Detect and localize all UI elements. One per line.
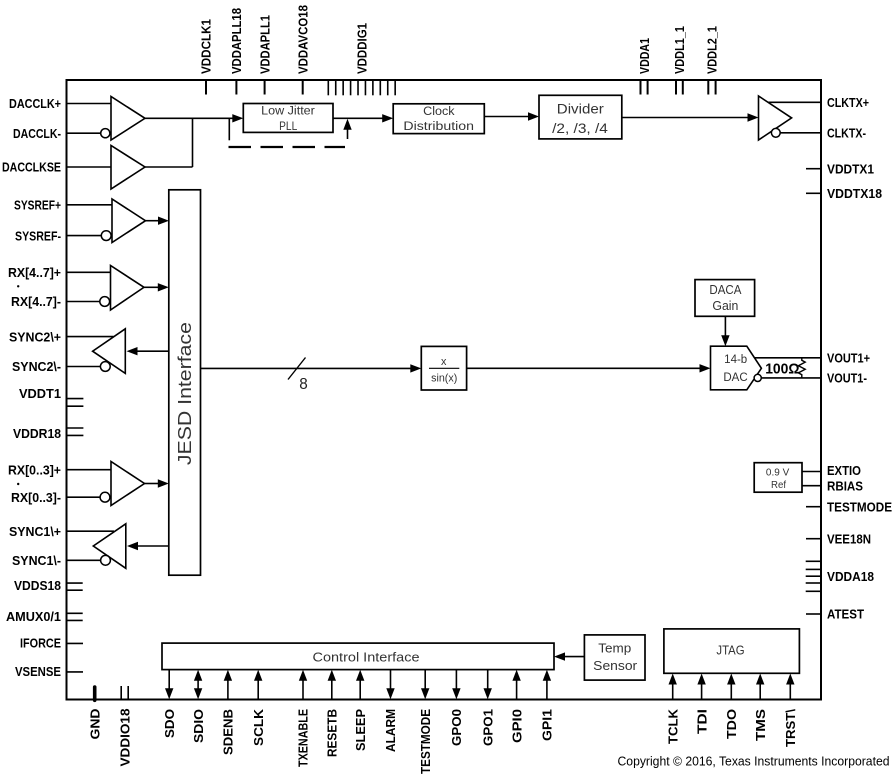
wire CLKTX+ to pin <box>768 101 821 103</box>
svg-text:Gain: Gain <box>712 298 738 313</box>
wire RX[0..3] buffer to JESD <box>145 479 169 487</box>
output buffer SYNC2 (U5) <box>93 329 126 374</box>
input buffer SYSREF (U3) <box>101 199 145 243</box>
input buffer RX[0..3] (U6) <box>100 462 144 506</box>
bus width label 8 <box>299 376 308 393</box>
output buffer CLKTX (U8) <box>759 96 792 140</box>
pin VDDTX18 <box>806 186 882 201</box>
pin RX[4..7]- <box>11 294 100 309</box>
pin RX[0..3]+ <box>8 462 111 477</box>
svg-text:CLKTX-: CLKTX- <box>827 126 866 141</box>
wire RBIAS <box>802 485 821 487</box>
pin TDI <box>694 674 709 735</box>
output buffer SYNC1 (U7) <box>93 524 126 569</box>
svg-text:VSENSE: VSENSE <box>15 664 61 679</box>
input buffer DACCLK (U1) <box>101 97 145 141</box>
block Clock Distribution <box>393 104 484 134</box>
pin VEE18N <box>806 531 871 546</box>
wire CLKTX- to pin <box>780 132 821 134</box>
pin VDDAPLL18 <box>229 8 244 95</box>
svg-text:TCLK: TCLK <box>665 709 680 744</box>
svg-text:SYSREF+: SYSREF+ <box>14 198 61 213</box>
svg-text:SYNC1\-: SYNC1\- <box>12 553 61 568</box>
pin VOUT1- <box>827 371 867 386</box>
wire JESD to x/sin(x) (8-bit bus) <box>201 364 422 372</box>
svg-text:x: x <box>441 356 447 368</box>
pin EXTIO <box>827 463 861 478</box>
svg-text:Control Interface: Control Interface <box>313 649 420 664</box>
svg-text:VDDAVCO18: VDDAVCO18 <box>295 5 310 74</box>
svg-text:RX[0..3]+: RX[0..3]+ <box>8 462 61 477</box>
svg-text:VDDAPLL18: VDDAPLL18 <box>229 8 244 74</box>
wire Divider to CLKTX output buffer <box>622 113 759 121</box>
svg-text:JTAG: JTAG <box>716 643 744 657</box>
svg-text:GPO0: GPO0 <box>449 709 464 746</box>
svg-text:RX[0..3]-: RX[0..3]- <box>11 490 61 505</box>
pin VDDAPLL1 <box>257 15 272 95</box>
svg-text:IFORCE: IFORCE <box>20 635 61 650</box>
ellipsis dot between RX[0..3] pins <box>17 483 19 485</box>
svg-text:SYNC1\+: SYNC1\+ <box>9 524 61 539</box>
svg-text:VDDTX1: VDDTX1 <box>827 161 874 176</box>
svg-text:TESTMODE: TESTMODE <box>827 499 892 514</box>
pin SYSREF+ <box>14 198 112 213</box>
svg-text:AMUX0/1: AMUX0/1 <box>6 609 61 624</box>
pin SYNC2\- <box>12 359 100 374</box>
svg-text:14-b: 14-b <box>724 354 747 366</box>
wire junction DACCLKSE join vertical <box>192 118 194 167</box>
svg-text:TESTMODE: TESTMODE <box>418 709 433 774</box>
block Divider /2 /3 /4 <box>539 95 622 139</box>
block Low Jitter PLL <box>243 104 333 134</box>
pin GPO0 <box>449 670 464 746</box>
pin TDO <box>724 674 739 740</box>
pin VDDA18 (5 ticks) <box>806 561 874 591</box>
svg-text:/2, /3, /4: /2, /3, /4 <box>552 121 608 136</box>
svg-text:VDDTX18: VDDTX18 <box>827 186 882 201</box>
pin VDDA1 <box>637 38 652 95</box>
svg-text:CLKTX+: CLKTX+ <box>827 95 869 110</box>
wire JESD to SYNC2 buffer <box>127 347 169 355</box>
svg-text:SYSREF-: SYSREF- <box>15 228 61 243</box>
pin RX[4..7]+ <box>8 265 111 280</box>
pin VDDL1_1 <box>672 26 687 95</box>
svg-text:SYNC2\-: SYNC2\- <box>12 359 61 374</box>
block JESD Interface <box>169 190 201 575</box>
input buffer RX[4..7] (U4) <box>100 266 144 311</box>
svg-text:GPI1: GPI1 <box>540 709 555 741</box>
svg-text:8: 8 <box>299 376 308 393</box>
svg-text:VDDS18: VDDS18 <box>14 578 61 593</box>
svg-text:Temp: Temp <box>598 641 631 656</box>
wire EXTIO <box>802 471 821 473</box>
pin group VDDDIG1 (10 supply pins) <box>328 23 395 95</box>
svg-text:SDO: SDO <box>162 709 177 738</box>
pin ALARM <box>383 670 398 752</box>
svg-text:VDDL1_1: VDDL1_1 <box>672 26 687 74</box>
svg-text:VDDCLK1: VDDCLK1 <box>199 19 214 74</box>
wire DACCLKSE buffer output <box>145 166 193 168</box>
pin VSENSE <box>15 664 83 679</box>
pin VDDT1 (2 ticks) <box>19 386 83 406</box>
svg-text:PLL: PLL <box>279 119 297 133</box>
svg-text:Sensor: Sensor <box>593 658 638 673</box>
pin VDDR18 (2 ticks) <box>13 426 83 441</box>
loop filter dashed line <box>229 146 346 148</box>
pin GPI1 <box>540 670 555 741</box>
svg-text:ALARM: ALARM <box>383 709 398 752</box>
wire loop filter up arrow to VCO output <box>343 119 351 139</box>
chip outline <box>67 80 822 700</box>
svg-text:0.9 V: 0.9 V <box>766 468 790 479</box>
wire VOUT1- to pin <box>761 377 821 379</box>
pin ATEST <box>806 607 864 622</box>
pin TESTMODE <box>418 670 433 774</box>
svg-text:RESETB: RESETB <box>325 709 340 757</box>
ellipsis dot between RX[4..7] pins <box>17 285 19 287</box>
pin IFORCE <box>20 635 83 650</box>
svg-text:DAC: DAC <box>723 372 747 384</box>
pin VOUT1+ <box>827 351 870 366</box>
pin DACCLKSE <box>2 160 111 175</box>
pin CLKTX- <box>827 126 866 141</box>
wire RX[4..7] buffer to JESD <box>144 283 169 291</box>
svg-text:sin(x): sin(x) <box>431 372 457 384</box>
svg-text:VDDA18: VDDA18 <box>827 569 874 584</box>
wire DACCLK buffer output to PLL <box>145 114 243 122</box>
wire JESD to SYNC1 buffer <box>127 542 169 550</box>
pin RBIAS <box>827 478 863 493</box>
svg-text:100Ω: 100Ω <box>765 361 799 378</box>
pin SDO <box>162 670 177 738</box>
pin VDDTX1 <box>806 161 874 176</box>
block Temp Sensor <box>584 635 645 680</box>
svg-text:SDIO: SDIO <box>191 709 206 743</box>
svg-text:VOUT1+: VOUT1+ <box>827 351 870 366</box>
svg-text:RX[4..7]+: RX[4..7]+ <box>8 265 61 280</box>
pin RX[0..3]- <box>11 490 100 505</box>
svg-text:JESD Interface: JESD Interface <box>175 322 195 465</box>
block Control Interface <box>162 643 554 670</box>
pin VDDCLK1 <box>199 19 214 95</box>
pin VDDIO18 (2 ticks) <box>117 686 132 767</box>
svg-text:VDDL2_1: VDDL2_1 <box>705 26 720 74</box>
svg-text:GND: GND <box>87 709 102 740</box>
svg-text:SLEEP: SLEEP <box>353 709 368 751</box>
svg-text:DACCLKSE: DACCLKSE <box>2 160 61 175</box>
svg-text:GPO1: GPO1 <box>480 709 495 746</box>
svg-text:VDDR18: VDDR18 <box>13 426 61 441</box>
wire loop filter stub vertical <box>228 118 230 140</box>
svg-text:EXTIO: EXTIO <box>827 463 861 478</box>
resistor 100 ohm termination <box>798 358 805 378</box>
pin CLKTX+ <box>827 95 869 110</box>
svg-text:DACCLK-: DACCLK- <box>13 126 61 141</box>
pin GPI0 <box>509 670 524 743</box>
wire SYSREF buffer to JESD <box>146 217 170 225</box>
pin VDDAVCO18 <box>295 5 310 95</box>
wire PLL to Clock Distribution <box>333 114 393 122</box>
svg-text:Ref: Ref <box>771 480 786 491</box>
block JTAG <box>664 629 800 673</box>
svg-text:VDDDIG1: VDDDIG1 <box>354 23 369 74</box>
svg-text:TDI: TDI <box>694 709 709 734</box>
pin SLEEP <box>353 670 368 751</box>
svg-text:DACCLK+: DACCLK+ <box>9 96 61 111</box>
pin DACCLK+ <box>9 96 111 111</box>
svg-text:TRST\: TRST\ <box>783 709 798 747</box>
svg-text:GPI0: GPI0 <box>509 709 524 743</box>
pin TESTMODE (right) <box>806 499 892 514</box>
wire VOUT1+ to pin <box>755 357 822 359</box>
copyright notice <box>618 754 890 769</box>
pin TXENABLE <box>296 670 311 767</box>
pin SYNC1\- <box>12 553 101 568</box>
pin SCLK <box>251 670 266 746</box>
svg-text:SYNC2\+: SYNC2\+ <box>9 329 61 344</box>
svg-text:VOUT1-: VOUT1- <box>827 371 867 386</box>
pin RESETB <box>325 670 340 757</box>
svg-text:SDENB: SDENB <box>221 709 236 755</box>
DAC 14-b core (U9) <box>711 346 762 390</box>
pin AMUX0/1 (2 ticks) <box>6 609 83 624</box>
bus width slash <box>288 358 306 380</box>
svg-text:Distribution: Distribution <box>403 119 474 133</box>
wire DACA Gain to DAC <box>721 316 729 346</box>
pin DACCLK- <box>13 126 101 141</box>
ground pin GND <box>87 687 102 740</box>
pin GPO1 <box>480 670 495 746</box>
svg-text:VDDAPLL1: VDDAPLL1 <box>257 15 272 74</box>
svg-text:Divider: Divider <box>557 102 604 117</box>
svg-text:SCLK: SCLK <box>251 709 266 746</box>
pin SYNC2\+ <box>9 329 114 344</box>
block 0.9 V Ref <box>754 463 802 493</box>
svg-text:VDDIO18: VDDIO18 <box>117 709 132 767</box>
pin SDIO <box>191 670 206 743</box>
svg-text:Low Jitter: Low Jitter <box>261 104 315 118</box>
svg-text:VDDA1: VDDA1 <box>637 38 652 74</box>
pin TCLK <box>665 674 680 745</box>
svg-text:DACA: DACA <box>709 282 741 297</box>
input buffer DACCLKSE (U2) <box>111 146 145 190</box>
svg-text:TDO: TDO <box>724 709 739 739</box>
block DACA Gain <box>695 280 755 317</box>
svg-text:TXENABLE: TXENABLE <box>296 709 311 767</box>
block x/sin(x) <box>421 346 466 390</box>
svg-text:VEE18N: VEE18N <box>827 531 871 546</box>
pin SDENB <box>221 670 236 755</box>
pin VDDL2_1 <box>705 26 720 95</box>
pin TRST\ <box>783 674 798 748</box>
pin VDDS18 (2 ticks) <box>14 578 83 593</box>
wire x/sin(x) to 14-b DAC <box>467 364 711 372</box>
wire Clock Distribution to Divider <box>484 112 539 120</box>
svg-text:TMS: TMS <box>753 709 768 741</box>
svg-text:Clock: Clock <box>423 104 455 118</box>
svg-text:RX[4..7]-: RX[4..7]- <box>11 294 61 309</box>
svg-text:ATEST: ATEST <box>827 607 864 622</box>
pin SYSREF- <box>15 228 101 243</box>
svg-text:Copyright © 2016, Texas Instru: Copyright © 2016, Texas Instruments Inco… <box>618 754 890 769</box>
pin SYNC1\+ <box>9 524 114 539</box>
wire Temp Sensor to Control Interface <box>554 652 584 660</box>
svg-text:VDDT1: VDDT1 <box>19 386 61 401</box>
svg-text:RBIAS: RBIAS <box>827 478 863 493</box>
value label 100 ohm <box>765 361 799 378</box>
pin TMS <box>753 674 768 742</box>
